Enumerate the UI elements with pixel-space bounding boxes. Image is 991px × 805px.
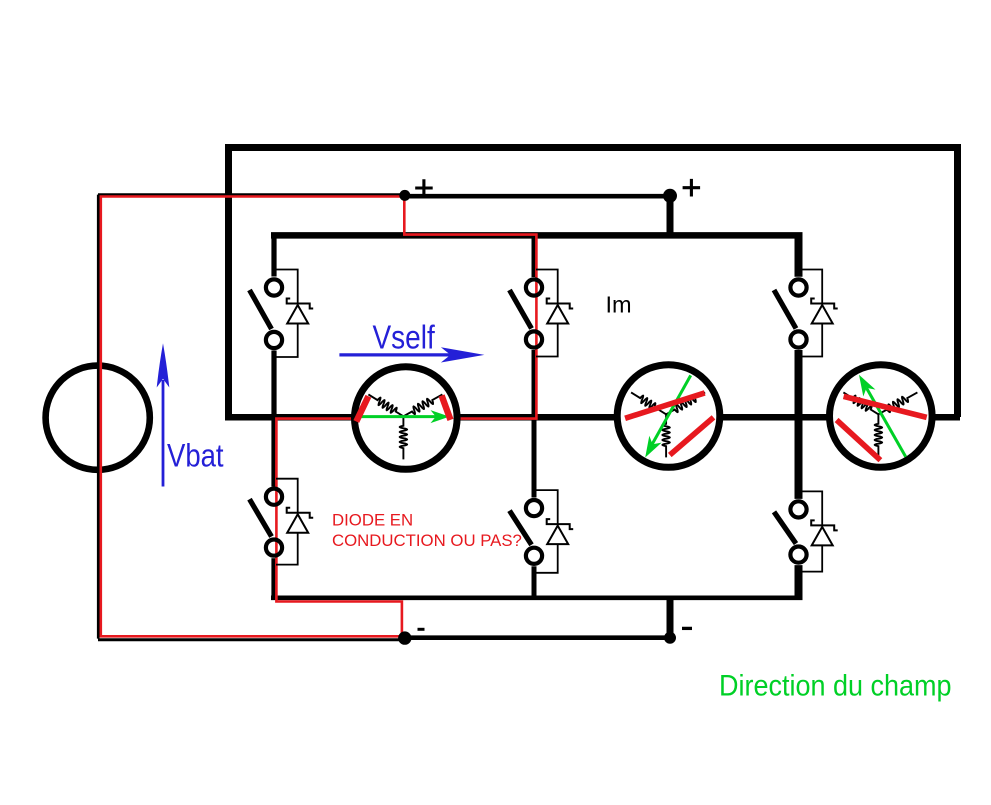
diode D of Q3 top-right	[801, 270, 838, 357]
motor M1 star windings	[368, 394, 442, 459]
motor M2 green field arrow	[645, 375, 691, 457]
switch Q3 top-right	[774, 279, 807, 347]
motor M2 red winding leg upper	[625, 393, 705, 418]
diode D of Q5 bottom-mid	[536, 490, 573, 573]
diode D of Q2 top-mid	[536, 270, 573, 357]
label - right	[682, 627, 692, 630]
motor M3 circle	[830, 365, 933, 468]
switch Q4 bottom-left	[250, 489, 283, 556]
motor M2 red winding leg lower	[670, 417, 714, 455]
node dot minus left	[398, 631, 411, 644]
wire right leg vertical	[795, 235, 803, 276]
motor M3 red winding leg upper	[844, 396, 927, 417]
motor M1 red winding leg left	[356, 396, 368, 421]
wire inner bridge top	[271, 232, 803, 239]
motor M3 red winding leg lower	[837, 420, 881, 460]
label + left	[415, 179, 433, 197]
Vbat arrow blue	[157, 343, 170, 486]
wire node2 drop to bridge top	[667, 196, 674, 235]
wire battery bottom horizontal	[98, 638, 405, 641]
red highlighted conduction loop wire	[101, 197, 537, 637]
motor M2 circle	[617, 365, 720, 468]
node dot minus right	[664, 632, 676, 644]
Vself arrow blue	[339, 347, 484, 362]
svg-text:Vself: Vself	[373, 319, 436, 356]
wire outer loop top/left/right	[229, 148, 958, 418]
wire mid leg vertical	[532, 235, 537, 277]
node dot plus right	[663, 189, 677, 203]
wire inner bridge bottom	[271, 595, 803, 600]
svg-text:Vbat: Vbat	[167, 438, 224, 474]
svg-text:Im: Im	[606, 291, 632, 317]
motor M1 red winding leg right	[442, 396, 451, 420]
wire plus rail node1 to node2	[405, 194, 671, 199]
label + right	[683, 179, 701, 197]
diode D of Q1 top-left	[276, 270, 313, 358]
wire left leg vertical	[271, 235, 276, 276]
motor M2 star windings	[631, 392, 705, 457]
svg-text:DIODE EN: DIODE EN	[332, 511, 413, 530]
switch Q2 top-mid	[510, 279, 543, 347]
wire minus rail node3 to node4	[405, 635, 670, 640]
svg-text:CONDUCTION OU PAS?: CONDUCTION OU PAS?	[332, 531, 522, 550]
switch Q1 top-left	[250, 279, 283, 348]
motor M1 circle	[355, 367, 458, 470]
battery source V1 circle	[46, 366, 150, 470]
wire mid bus	[225, 414, 960, 421]
switch Q6 bottom-right	[774, 501, 807, 562]
switch Q5 bottom-mid	[510, 500, 543, 564]
node dot plus left	[399, 190, 410, 201]
wire battery top horizontal	[98, 193, 405, 196]
motor M3 green field arrow	[859, 375, 906, 457]
diode D of Q4 bottom-left	[276, 479, 313, 565]
motor M3 star windings	[843, 392, 917, 457]
wire battery vertical	[97, 195, 100, 639]
diode D of Q6 bottom-right	[801, 491, 838, 571]
label - left	[418, 628, 425, 631]
svg-text:Direction du champ: Direction du champ	[719, 668, 952, 701]
wire node4 rise to bridge bottom	[667, 598, 674, 638]
motor M1 green field arrow	[359, 410, 450, 423]
